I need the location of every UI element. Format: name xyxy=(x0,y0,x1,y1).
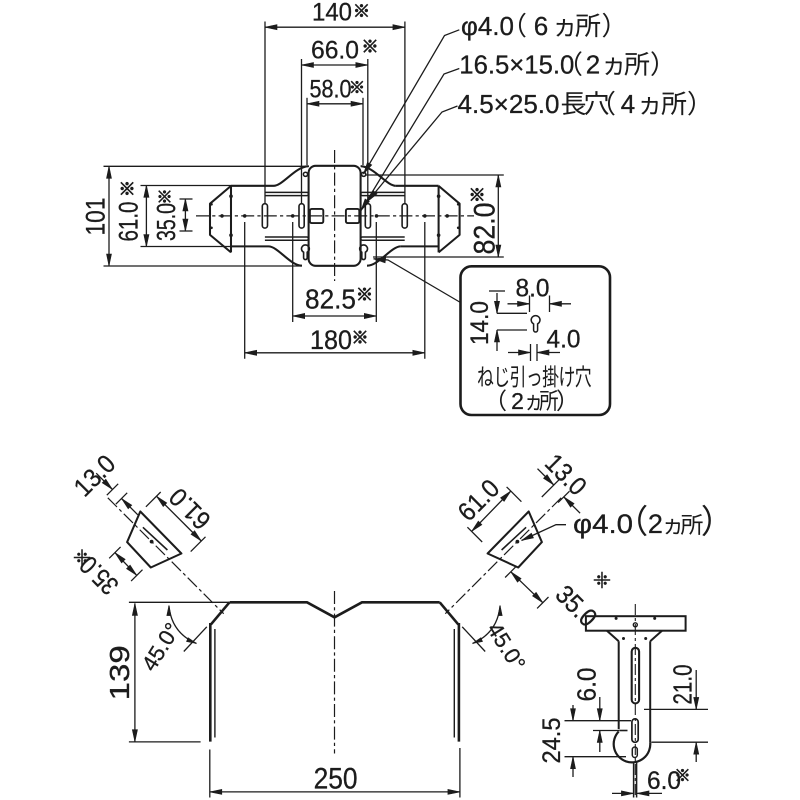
svg-text:6: 6 xyxy=(534,11,548,41)
svg-text:82.0: 82.0 xyxy=(468,203,501,255)
svg-text:250: 250 xyxy=(314,763,358,796)
svg-text:21.0: 21.0 xyxy=(668,665,698,705)
svg-text:φ4.0: φ4.0 xyxy=(573,509,633,539)
svg-text:61.0: 61.0 xyxy=(113,202,143,242)
svg-text:101: 101 xyxy=(80,198,110,236)
svg-text:8.0: 8.0 xyxy=(516,275,550,303)
svg-text:35.0: 35.0 xyxy=(151,203,181,241)
svg-text:58.0: 58.0 xyxy=(310,75,352,103)
svg-text:6.0: 6.0 xyxy=(572,668,602,702)
svg-text:4.5×25.0: 4.5×25.0 xyxy=(458,89,560,119)
svg-text:140: 140 xyxy=(312,0,352,27)
svg-text:4.0: 4.0 xyxy=(547,326,581,354)
svg-text:2: 2 xyxy=(586,50,600,80)
svg-text:139: 139 xyxy=(104,645,135,700)
svg-text:82.5: 82.5 xyxy=(305,284,356,315)
svg-text:66.0: 66.0 xyxy=(311,37,359,65)
svg-text:24.5: 24.5 xyxy=(538,718,566,764)
svg-text:180: 180 xyxy=(310,325,352,355)
svg-text:2: 2 xyxy=(511,388,524,414)
svg-text:14.0: 14.0 xyxy=(466,301,494,345)
svg-text:16.5×15.0: 16.5×15.0 xyxy=(459,50,574,80)
svg-text:2: 2 xyxy=(648,509,663,539)
svg-text:4: 4 xyxy=(621,89,635,119)
svg-text:φ4.0: φ4.0 xyxy=(461,11,514,41)
svg-text:6.0: 6.0 xyxy=(647,767,681,795)
